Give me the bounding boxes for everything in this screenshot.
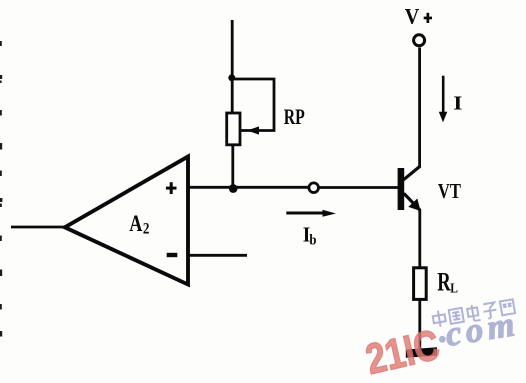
svg-text:VT: VT xyxy=(438,180,461,203)
svg-text:2: 2 xyxy=(143,221,150,238)
svg-text:RP: RP xyxy=(284,106,305,130)
svg-text:R: R xyxy=(437,268,451,297)
svg-text:b: b xyxy=(309,233,316,249)
svg-text:L: L xyxy=(450,280,458,295)
svg-text:A: A xyxy=(129,212,142,236)
svg-text:I: I xyxy=(453,92,462,114)
svg-text:V: V xyxy=(405,4,420,29)
